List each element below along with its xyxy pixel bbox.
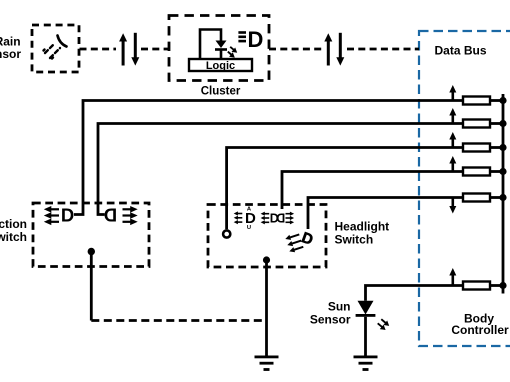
low beam icon (tilted): [284, 232, 304, 254]
junction dot headlight switch: [263, 256, 270, 263]
resistor R6: [463, 282, 490, 290]
svg-text:D: D: [104, 205, 117, 226]
wire net6 sun sensor: [366, 286, 464, 301]
svg-text:Controller: Controller: [451, 323, 509, 337]
ground symbol sun sensor: [354, 356, 378, 371]
svg-text:Data Bus: Data Bus: [435, 44, 487, 58]
wire net2 high beam right: [98, 124, 463, 215]
wire net5 low beam: [308, 198, 463, 230]
headlight switch box: [208, 205, 326, 268]
svg-text:Cluster: Cluster: [201, 86, 241, 98]
off position pin circle: [223, 230, 230, 237]
svg-text:Sensor: Sensor: [310, 313, 351, 327]
LED emission arrows: [228, 47, 237, 58]
svg-text:Sensor: Sensor: [0, 47, 21, 61]
dashed wire arrows to data bus: [347, 48, 419, 51]
dashed wire rain sensor to arrows: [80, 48, 117, 51]
dashed wire cluster to arrows: [269, 48, 322, 51]
arrow down net5: [449, 198, 456, 214]
ground symbol headlight switch: [255, 356, 279, 371]
svg-text:Switch: Switch: [0, 230, 27, 244]
high beam indicator icon in cluster: [238, 31, 246, 42]
sun sensor wire to ground: [364, 317, 367, 357]
svg-text:Logic: Logic: [206, 60, 235, 72]
LED diode D1: [216, 41, 227, 49]
dashed wire arrows to cluster: [141, 48, 169, 51]
resistor R4: [463, 168, 490, 176]
svg-text:U: U: [247, 225, 251, 231]
junction dot direction switch: [88, 248, 95, 255]
svg-text:Switch: Switch: [335, 233, 374, 247]
resistor R3: [463, 144, 490, 152]
svg-text:D: D: [276, 212, 285, 226]
arrow up net1: [449, 85, 456, 101]
wire net4 parking light: [282, 172, 463, 210]
resistor R5: [463, 194, 490, 202]
dashed ground link wire: [91, 319, 266, 322]
bus vertical line: [502, 94, 505, 294]
wire net1 high beam left: [74, 101, 463, 215]
ground wire headlight switch: [265, 260, 268, 357]
logic box: [189, 59, 252, 71]
sun arrows: [378, 319, 390, 330]
svg-text:Headlight: Headlight: [335, 220, 390, 234]
svg-text:D: D: [61, 205, 74, 226]
arrow up net3: [449, 132, 456, 148]
resistor R2: [463, 120, 490, 128]
sun sensor photodiode: [358, 301, 374, 315]
rain sensor box: [32, 25, 79, 72]
wire net3 off position: [227, 148, 463, 230]
parking light icon: [261, 212, 270, 225]
ground wire from direction switch: [90, 252, 93, 321]
high beam icon right mirrored (direction switch): [104, 205, 117, 226]
svg-text:Direction: Direction: [0, 217, 27, 231]
svg-text:D: D: [248, 27, 264, 52]
down arrow (rain-cluster link): [131, 33, 139, 66]
rain sensor icon: [44, 36, 67, 59]
resistor R1: [463, 97, 490, 105]
high beam icon left (direction switch): [44, 206, 59, 225]
svg-text:Sun: Sun: [328, 300, 351, 314]
arrow up net6: [449, 268, 456, 286]
up arrow (cluster-bus link): [324, 33, 332, 65]
arrow up net4: [449, 156, 456, 172]
Body Controller / Data Bus dashed box: [419, 31, 510, 346]
LED wire in cluster: [200, 30, 221, 60]
up arrow (rain-cluster link): [119, 33, 127, 65]
down arrow (cluster-bus link): [336, 33, 344, 66]
direction switch box: [33, 203, 149, 267]
arrow up net2: [449, 108, 456, 124]
cluster box: [169, 16, 269, 81]
